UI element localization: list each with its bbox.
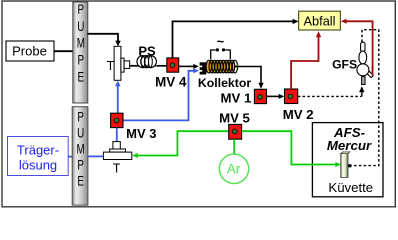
- svg-text:P: P: [77, 157, 84, 173]
- pump PUMPE 2: [72, 107, 88, 205]
- svg-text:E: E: [77, 173, 84, 189]
- svg-text:M: M: [77, 141, 85, 157]
- svg-text:~: ~: [217, 34, 225, 49]
- wire T1 to PS coil: [130, 65, 139, 67]
- svg-text:Kollektor: Kollektor: [198, 76, 252, 90]
- wire green MV5 to cuvette with arrow: [242, 131, 341, 167]
- wire red overlay at lamp tube: [372, 66, 374, 76]
- svg-text:P: P: [78, 52, 85, 68]
- box Abfall: [299, 11, 341, 30]
- coil Kollektor: [198, 60, 252, 90]
- wire blue Pumpe2 to T2: [88, 155, 104, 157]
- wire green MV5 to Ar circle: [233, 139, 235, 154]
- AC heater symbol above collector: [211, 34, 231, 59]
- svg-text:lösung: lösung: [19, 158, 57, 173]
- wire blue carrier from MV3 to collector inlet with arrow: [123, 68, 199, 120]
- svg-text:MV 4: MV 4: [155, 75, 187, 90]
- svg-text:E: E: [78, 69, 85, 85]
- pump PUMPE 1: [73, 1, 88, 103]
- svg-text:MV 2: MV 2: [283, 107, 314, 122]
- svg-text:U: U: [77, 18, 84, 34]
- svg-text:Küvette: Küvette: [328, 180, 373, 195]
- wire green into T2 with arrow: [132, 131, 229, 158]
- cuvette bar: [341, 152, 350, 178]
- wire PS to MV4: [156, 65, 167, 67]
- svg-text:MV 5: MV 5: [219, 110, 250, 125]
- box AFS-Mercur: [312, 123, 383, 197]
- coil PS: [137, 43, 156, 67]
- wire dashed MV2 to lamp bottom with arrow: [298, 86, 365, 96]
- dashed optical path lamp to cuvette: [351, 30, 379, 166]
- wire MV1 to MV2 with arrow: [267, 94, 285, 99]
- svg-text:Ar: Ar: [227, 162, 241, 177]
- svg-text:T: T: [113, 161, 121, 175]
- wire collector to MV1 with arrow: [235, 67, 264, 89]
- T connector T2: [103, 142, 131, 176]
- svg-text:Träger-: Träger-: [17, 142, 59, 157]
- svg-text:P: P: [77, 109, 84, 125]
- svg-text:PS: PS: [138, 43, 156, 58]
- valve MV 1: [221, 89, 267, 105]
- T connector T1: [107, 46, 130, 80]
- svg-text:Abfall: Abfall: [303, 14, 335, 29]
- svg-text:GFS: GFS: [332, 58, 357, 72]
- svg-text:MV 1: MV 1: [221, 90, 252, 105]
- svg-text:U: U: [77, 125, 84, 141]
- wire Probe to Pumpe1: [54, 50, 73, 52]
- wire MV4 to collector inlet with arrow: [179, 64, 199, 69]
- svg-text:P: P: [78, 1, 85, 17]
- wire MV4 up to Abfall with arrow: [173, 19, 299, 58]
- wire blue MV3 down to T2: [116, 128, 118, 142]
- connector plug at collector inlet: [199, 62, 206, 74]
- box Traegerloesung: [8, 137, 69, 176]
- svg-text:Probe: Probe: [12, 44, 47, 59]
- svg-text:M: M: [77, 35, 85, 51]
- lamp GFS: [332, 42, 373, 84]
- gas source Ar: [219, 154, 248, 183]
- valve MV 5: [219, 110, 250, 139]
- valve MV 3: [111, 113, 157, 141]
- wire red lamp to Abfall with arrow: [341, 19, 373, 76]
- wire red MV2 up to Abfall with arrow: [291, 31, 321, 89]
- svg-text:MV 3: MV 3: [126, 126, 156, 141]
- valve MV 4: [155, 58, 187, 90]
- svg-text:T: T: [107, 59, 115, 73]
- wire blue Traeger to Pumpe2: [68, 156, 72, 158]
- valve MV 2: [283, 89, 314, 122]
- junction dot at cuvette: [348, 164, 351, 167]
- box Probe: [6, 41, 54, 61]
- svg-text:Mercur: Mercur: [327, 138, 372, 153]
- wire Pumpe1 to T1 with arrow: [87, 34, 120, 47]
- blue arrow into T1 bottom: [115, 81, 121, 114]
